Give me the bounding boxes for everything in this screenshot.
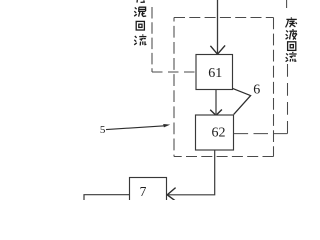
leader lines of label 6 to boxes 61 and 62 xyxy=(233,88,251,114)
svg-text:62: 62 xyxy=(212,125,226,140)
dashed enclosure 5 (reactor group boundary) xyxy=(174,17,274,19)
partial char 污 bottom tips xyxy=(136,0,138,3)
leader arrow of label 5 pointing at enclosure xyxy=(106,126,165,130)
svg-text:61: 61 xyxy=(208,66,222,81)
char 流 xyxy=(134,34,146,45)
wire: from box 62 down and left into box 7 xyxy=(168,150,215,195)
vertical label: waste liquid return 废液回流 xyxy=(286,17,297,61)
arrowhead into box 62 xyxy=(210,110,222,116)
vertical label: sludge return (污)泥回流 xyxy=(134,0,146,45)
box 61 xyxy=(196,55,233,90)
wire: arrow from 61 to 62 xyxy=(215,90,217,114)
svg-text:5: 5 xyxy=(100,124,106,136)
char 废 xyxy=(286,17,297,27)
char 流 xyxy=(286,52,297,62)
wire: waste liquid return dashed line from box 62 xyxy=(234,133,288,135)
box 7 xyxy=(130,178,167,204)
char 泥 xyxy=(134,7,146,16)
char 液 xyxy=(286,29,297,40)
wire: influent arrow line into box 61 xyxy=(217,0,219,53)
char 回 xyxy=(136,21,144,30)
char 回 xyxy=(288,42,296,51)
svg-text:6: 6 xyxy=(253,82,260,97)
wire: dash stub above waste-return label xyxy=(286,0,288,8)
arrowhead into box 61 xyxy=(210,45,225,54)
svg-text:7: 7 xyxy=(140,184,147,199)
arrowhead into box 7 right side xyxy=(167,188,176,202)
box 62 xyxy=(196,115,234,150)
wire: sludge return dashed line into box 61 xyxy=(151,7,153,72)
wire: inflow into box 7 from bottom left xyxy=(84,195,130,201)
